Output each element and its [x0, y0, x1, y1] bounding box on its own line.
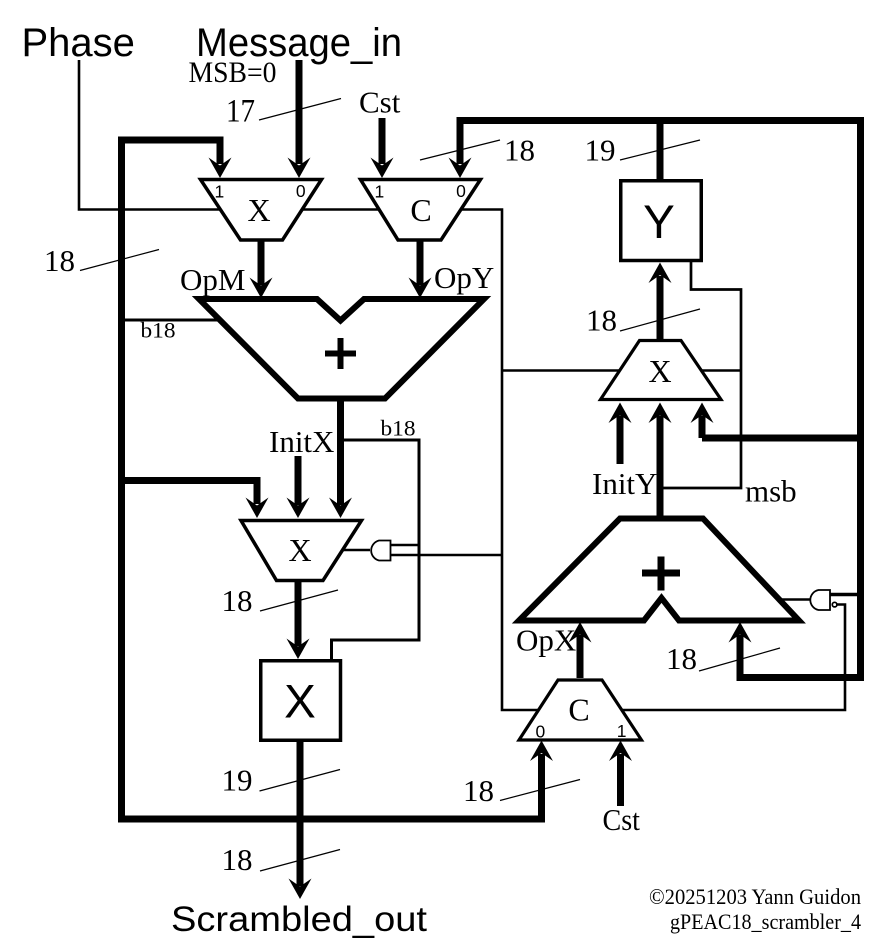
arrowhead bus into mux C top pin 0 — [449, 158, 472, 179]
wire: right gate output to right bus — [830, 593, 859, 596]
svg-text:b18: b18 — [141, 318, 176, 343]
svg-text:Phase: Phase — [22, 21, 135, 65]
wire: Cst bottom input — [617, 754, 624, 806]
gate right (AND with bubble) — [810, 590, 830, 610]
plus sign left adder — [325, 351, 356, 357]
slash 18 right adder input — [699, 648, 780, 671]
svg-text:18: 18 — [586, 303, 617, 338]
arrowhead adder sum into left mux X — [329, 498, 352, 519]
arrowhead bus into right adder — [729, 622, 752, 643]
mux C bottom — [519, 680, 642, 740]
wire: left gate input from mux X slope — [340, 549, 370, 551]
svg-text:b18: b18 — [381, 416, 416, 441]
wire: top bus from mux C input 0 along top and right side down to right adder input — [460, 121, 861, 678]
arrowhead feedback into mux C bottom pin 0 — [530, 741, 553, 762]
wire: left gate lower output to select vertical — [390, 554, 502, 556]
slash 18 right middle — [620, 309, 700, 331]
wire: Y output from top bus into Y box — [657, 119, 664, 179]
svg-text:X: X — [247, 192, 270, 228]
wire: small mux X output into X box — [295, 580, 302, 646]
slash 19 top — [620, 140, 700, 160]
svg-text:18: 18 — [44, 243, 75, 278]
wire: select of right mux X from vertical select line to msb line — [502, 369, 741, 372]
arrowhead OpY into left adder — [409, 278, 432, 299]
mux X right — [601, 341, 722, 400]
arrowhead Cst into mux C bottom pin 1 — [609, 741, 632, 762]
svg-text:X: X — [288, 532, 311, 568]
wire: OpX from bottom C mux up into right adder — [577, 635, 584, 678]
slash 18 left — [80, 250, 159, 271]
svg-text:1: 1 — [215, 182, 225, 202]
slash 18 top — [420, 140, 500, 160]
arrowhead adder sum into right mux X — [649, 403, 672, 424]
adder left + — [199, 299, 484, 399]
wire: top-left hook into mux X input 1 — [118, 140, 220, 164]
arrowhead Scrambled_out — [289, 879, 312, 900]
svg-text:X: X — [648, 353, 671, 389]
slash 18 scrambled out — [260, 850, 340, 872]
arrowhead mux output into register X — [287, 639, 310, 660]
gate left (AND) — [371, 541, 390, 561]
wire: b18 tap from adder output down into X box top — [332, 440, 420, 660]
svg-text:©20251203 Yann Guidon: ©20251203 Yann Guidon — [649, 884, 861, 909]
register Y box — [621, 181, 702, 261]
svg-text:Cst: Cst — [603, 802, 641, 837]
wire: InitY input — [617, 416, 624, 465]
svg-text:InitX: InitX — [269, 424, 334, 459]
svg-text:OpM: OpM — [180, 262, 245, 297]
mux C top (Cst) — [361, 180, 481, 241]
wire: branch from left bus into left mux X first input — [118, 481, 257, 505]
wire: InitX input — [295, 456, 302, 505]
arrowhead into mux X top pin 1 — [209, 158, 232, 179]
wire: left adder output down to small mux X — [337, 398, 344, 505]
slash 18 bottom C mux input — [500, 780, 580, 801]
register X box — [261, 661, 341, 741]
wire: Phase select line to muxes, down right side to bottom C mux select and gate bubble — [79, 60, 845, 710]
adder right + — [519, 519, 799, 621]
arrowhead OpM into left adder — [250, 278, 273, 299]
svg-text:18: 18 — [666, 641, 697, 676]
arrowhead Message_in into mux X top pin 0 — [288, 158, 311, 179]
svg-text:19: 19 — [585, 133, 616, 168]
svg-text:Y: Y — [643, 196, 675, 249]
svg-text:0: 0 — [296, 181, 306, 201]
slash 17 — [259, 99, 341, 121]
svg-text:0: 0 — [536, 722, 546, 742]
svg-text:19: 19 — [222, 763, 253, 798]
wire: b18 tap from left bus to left adder — [118, 319, 230, 322]
svg-text:C: C — [568, 692, 589, 728]
svg-text:X: X — [284, 676, 316, 729]
arrowhead OpX into right adder — [569, 622, 592, 643]
arrowhead InitX into left mux X — [287, 498, 310, 519]
wire: left gate upper output to b18 vertical — [390, 544, 419, 546]
svg-text:18: 18 — [504, 133, 535, 168]
arrowhead bus branch into right mux X — [691, 403, 714, 424]
svg-text:Cst: Cst — [359, 85, 401, 120]
svg-text:MSB=0: MSB=0 — [189, 56, 277, 89]
svg-text:17: 17 — [226, 94, 255, 130]
svg-text:C: C — [410, 192, 431, 228]
arrowhead InitY into right mux X — [609, 403, 632, 424]
svg-text:Scrambled_out: Scrambled_out — [171, 900, 427, 939]
svg-text:18: 18 — [222, 842, 253, 877]
mux X left small — [241, 521, 362, 581]
wire: mux X output OpM into adder — [258, 239, 265, 285]
wire: X box output down to Scrambled_out — [297, 740, 304, 886]
wire: msb tap from right adder output up to Y box bottom — [658, 261, 741, 488]
slash 19 X box output — [260, 770, 341, 792]
svg-text:0: 0 — [456, 181, 466, 201]
arrowhead Cst into mux C top pin 1 — [371, 158, 394, 179]
wire: Message_in input — [296, 60, 303, 164]
svg-text:18: 18 — [222, 583, 253, 618]
wire: right gate input from right adder slope — [781, 598, 811, 600]
svg-text:1: 1 — [375, 182, 385, 202]
svg-text:OpY: OpY — [434, 260, 494, 295]
arrowhead into register Y bottom — [649, 263, 672, 284]
wire: right adder output up to right mux X — [657, 416, 664, 519]
svg-text:18: 18 — [463, 773, 494, 808]
wire: left vertical bus down and along bottom to C mux input 0 — [122, 137, 542, 820]
wire: Cst top input — [379, 118, 386, 164]
svg-text:OpX: OpX — [516, 623, 576, 658]
wire: mux C output OpY into adder — [417, 239, 424, 285]
svg-text:InitY: InitY — [592, 466, 657, 501]
plus sign right adder — [642, 570, 680, 577]
mux X top (message/feedback) — [201, 180, 322, 241]
arrowhead feedback into left mux X — [246, 498, 269, 519]
svg-text:gPEAC18_scrambler_4: gPEAC18_scrambler_4 — [670, 909, 861, 934]
slash 18 left mux output — [260, 590, 338, 611]
wire: Y input from right mux X — [657, 276, 664, 339]
svg-text:1: 1 — [617, 721, 627, 741]
svg-text:msb: msb — [745, 474, 797, 509]
wire: right bus branch into right mux X third input — [702, 435, 861, 442]
